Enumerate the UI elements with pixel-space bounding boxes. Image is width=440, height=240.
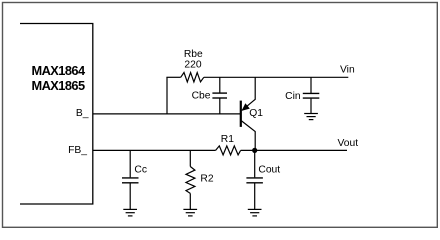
svg-text:R1: R1	[221, 134, 234, 145]
svg-text:R2: R2	[200, 174, 213, 185]
node junction dot	[252, 148, 257, 153]
IC U1 MAX1864/MAX1865 box (open on left)	[20, 24, 93, 205]
capacitor Cbe	[212, 77, 227, 114]
resistor Rbe	[181, 73, 204, 82]
ground (under Cout)	[248, 209, 262, 216]
base bar	[240, 101, 242, 127]
ground (under Cc)	[123, 209, 137, 216]
svg-text:Cbe: Cbe	[192, 90, 211, 101]
svg-text:220: 220	[184, 60, 201, 71]
emitter arrow	[242, 103, 250, 111]
capacitor Cc	[122, 150, 139, 209]
wire R1 to Vout	[241, 149, 347, 151]
svg-text:MAX1864: MAX1864	[31, 63, 85, 78]
svg-text:FB_: FB_	[68, 145, 87, 156]
wire Rbe left leg	[166, 77, 168, 114]
resistor R2	[186, 150, 195, 209]
emitter line from rail	[242, 77, 255, 110]
svg-text:Vout: Vout	[338, 138, 359, 149]
transistor Q1 (PNP)	[241, 77, 255, 150]
ground (under Cin)	[304, 114, 318, 120]
svg-text:B_: B_	[76, 108, 89, 119]
wire B_ to Q1 base	[93, 113, 240, 115]
wire top rail Vin segment	[204, 76, 348, 78]
svg-text:Vin: Vin	[340, 65, 355, 76]
capacitor Cin	[303, 77, 320, 113]
wire FB_ to R1	[93, 149, 216, 151]
svg-text:Cin: Cin	[285, 91, 301, 102]
resistor R1	[216, 146, 241, 155]
wire top rail left segment	[166, 76, 180, 78]
ground (under R2)	[183, 209, 197, 216]
capacitor Cout	[246, 150, 263, 209]
svg-text:Q1: Q1	[249, 108, 263, 119]
svg-text:Cout: Cout	[258, 165, 280, 176]
svg-text:Rbe: Rbe	[184, 49, 203, 60]
collector	[242, 121, 256, 150]
svg-text:MAX1865: MAX1865	[31, 78, 84, 93]
svg-text:Cc: Cc	[134, 165, 147, 176]
